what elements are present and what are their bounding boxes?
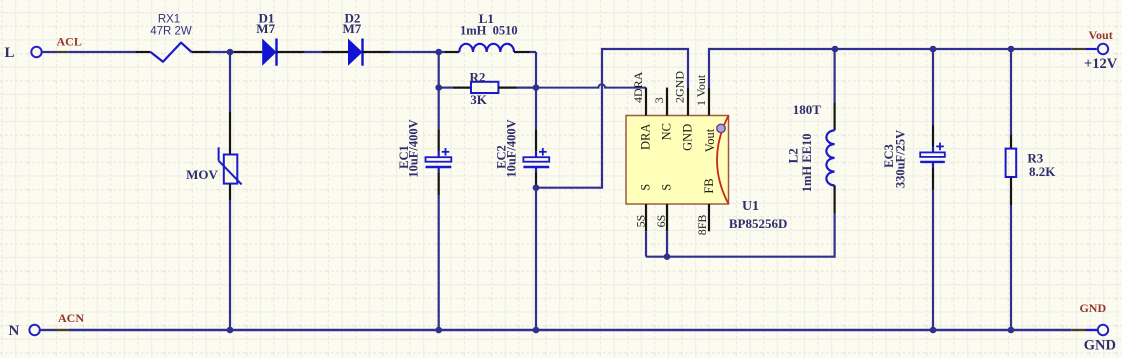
svg-text:3: 3 [652, 97, 666, 103]
wire dark segment before port Vout [1071, 48, 1086, 50]
inductor L2 [786, 49, 835, 213]
svg-text:180T: 180T [793, 102, 822, 117]
svg-text:5S: 5S [633, 215, 647, 228]
pin 2 GND [672, 71, 694, 151]
svg-text:8.2K: 8.2K [1029, 164, 1056, 179]
wire RX1 to node A [192, 51, 235, 53]
svg-text:1 Vout: 1 Vout [694, 74, 708, 106]
pin 8 FB [695, 178, 716, 235]
wire L1 corner down to node E [535, 52, 537, 88]
svg-text:RX1: RX1 [158, 14, 180, 26]
svg-text:R2: R2 [470, 69, 486, 84]
port GND [1079, 301, 1116, 354]
node R3 top junction [1008, 46, 1015, 53]
svg-text:NC: NC [660, 123, 674, 140]
node F junction EC2 bottom [533, 184, 540, 191]
IC U1 body [626, 116, 787, 231]
svg-text:+12V: +12V [1084, 56, 1118, 72]
svg-text:ACN: ACN [58, 311, 84, 325]
port N [9, 323, 40, 339]
wire D2 to node B [391, 51, 439, 53]
svg-text:ACL: ACL [57, 34, 82, 48]
svg-text:N: N [9, 323, 20, 339]
bottom rail ACN/GND [40, 329, 1097, 331]
node MOV bottom [227, 327, 234, 334]
wire node B down to node D [438, 52, 440, 88]
svg-text:Vout: Vout [1088, 28, 1112, 42]
svg-text:GND: GND [1084, 338, 1116, 354]
node R3 bottom [1008, 327, 1015, 334]
svg-text:MOV: MOV [186, 167, 218, 182]
pin 1 Vout [694, 74, 717, 152]
svg-text:M7: M7 [343, 21, 362, 36]
svg-text:6S: 6S [654, 215, 668, 228]
diode D2 [322, 10, 391, 65]
node A junction [227, 49, 234, 56]
svg-text:U1: U1 [742, 199, 759, 214]
wire D1 to D2 [304, 51, 322, 53]
node EC3 bottom [930, 327, 937, 334]
resistor R3 [1006, 49, 1057, 330]
svg-text:10uF/400V: 10uF/400V [505, 119, 519, 177]
svg-text:S: S [639, 184, 653, 191]
wire L to RX1 [42, 51, 150, 53]
svg-text:L2: L2 [786, 148, 801, 163]
capacitor EC2 [495, 88, 550, 330]
resistor R2 [439, 69, 536, 107]
svg-text:GND: GND [1079, 301, 1106, 315]
pin 6 S [654, 184, 674, 232]
svg-text:47R 2W: 47R 2W [150, 25, 192, 37]
wire GND jog to pin 2 [536, 49, 688, 188]
node S junction [664, 253, 671, 260]
svg-text:Vout: Vout [703, 128, 717, 152]
pin 5 S [633, 184, 652, 232]
inductor L1 [439, 11, 536, 52]
svg-text:L: L [5, 45, 15, 61]
svg-text:GND: GND [681, 124, 695, 151]
svg-text:M7: M7 [256, 21, 275, 36]
pin 4 DRA [631, 71, 652, 150]
wire S net from pins 5,6 to L2 [646, 213, 835, 256]
wire DRA with hop [536, 84, 646, 87]
svg-text:330uF/25V: 330uF/25V [894, 130, 908, 188]
node E junction [533, 84, 540, 91]
port Vout [1084, 28, 1118, 72]
capacitor EC1 [397, 88, 451, 330]
svg-text:10uF/400V: 10uF/400V [407, 119, 421, 177]
node EC1 bottom [435, 327, 442, 334]
node B junction [435, 49, 442, 56]
svg-text:8FB: 8FB [695, 215, 709, 236]
diode D1 [234, 10, 304, 65]
wire pin1 up to Vout rail [709, 49, 1071, 88]
capacitor EC3 [882, 49, 945, 330]
svg-text:S: S [660, 184, 674, 191]
svg-text:BP85256D: BP85256D [729, 216, 788, 231]
svg-text:4DRA: 4DRA [631, 71, 645, 103]
svg-text:1mH 0510: 1mH 0510 [460, 24, 518, 38]
node D junction [435, 84, 442, 91]
resistor RX1 [150, 14, 192, 62]
node EC3 top junction [930, 46, 937, 53]
svg-text:DRA: DRA [639, 124, 653, 150]
varistor MOV [186, 52, 241, 330]
port L [5, 45, 42, 61]
pin 3 NC [652, 88, 674, 141]
svg-text:FB: FB [702, 178, 716, 193]
node L2 top junction [832, 46, 839, 53]
svg-text:3K: 3K [470, 92, 488, 107]
node EC2 bottom [533, 327, 540, 334]
svg-text:1mH EE10: 1mH EE10 [800, 134, 814, 193]
svg-text:2GND: 2GND [672, 71, 686, 103]
